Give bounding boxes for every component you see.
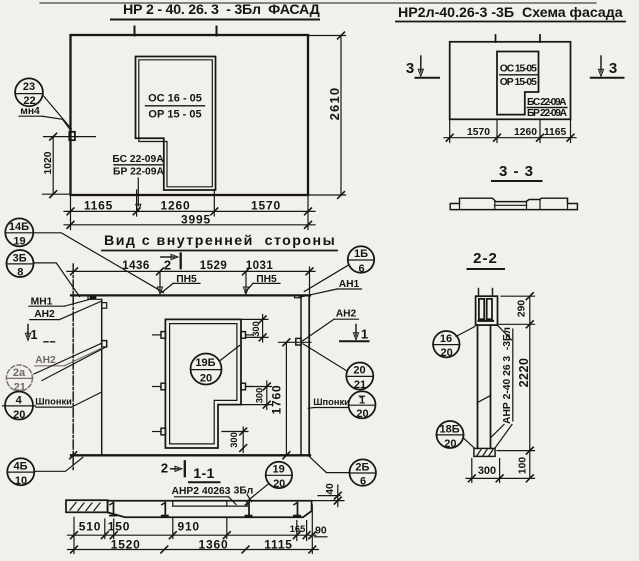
window opening of facade [136,57,216,191]
frame key tabs right [241,332,253,390]
section 2-2 heading [468,250,505,269]
svg-text:БР 22-09А: БР 22-09А [113,167,164,178]
title: inner side view heading [102,233,337,251]
section mark 2 bottom [161,461,185,477]
section 1-1 heading [189,466,220,482]
svg-text:1165: 1165 [544,127,567,138]
svg-text:150: 150 [108,520,130,534]
section mark 1 left [25,325,56,342]
svg-text:1760: 1760 [270,385,284,415]
svg-text:18Б: 18Б [440,423,460,435]
svg-text:1Б: 1Б [354,248,368,260]
svg-text:1: 1 [361,327,368,342]
anchor tab AN2 left [102,341,107,347]
anchor tab AN2 right [296,338,301,345]
label AN1 [299,279,362,297]
balloon 14B/19 [5,218,164,292]
balloon 2a/21 dashed [6,365,33,393]
balloon 4/20 with label Shponki left [3,392,102,421]
svg-text:1520: 1520 [111,538,141,552]
svg-text:Шпонки: Шпонки [313,397,350,407]
title: schema fasada heading [396,5,625,22]
svg-text:300: 300 [478,465,496,477]
frame key tabs left [153,332,166,435]
svg-text:6: 6 [360,476,366,488]
dimension 290 [499,293,535,328]
section 3-3 heading [492,163,542,181]
svg-text:300: 300 [255,388,265,404]
panel inner edge lines [88,295,301,455]
svg-text:3995: 3995 [181,213,211,227]
svg-text:20: 20 [440,347,452,359]
section 3-3 profile [450,198,577,209]
svg-text:2Б: 2Б [355,461,369,473]
svg-text:1-1: 1-1 [193,466,214,482]
svg-text:4Б: 4Б [13,461,27,473]
balloon 19/20 [247,462,293,502]
balloon 20/21 [303,344,373,391]
svg-text:1570: 1570 [467,127,490,138]
svg-text:1260: 1260 [161,199,191,213]
section 2-2 body [478,325,491,448]
svg-text:21: 21 [354,379,366,391]
section 1-1 profile outline [108,501,312,517]
svg-text:1260: 1260 [514,127,537,138]
svg-text:4: 4 [16,395,23,407]
svg-text:19: 19 [272,464,284,476]
leader pair to left anchor tab [34,343,105,380]
svg-text:БР 22-09А: БР 22-09А [527,108,568,119]
dimension 2610 vertical right [308,32,346,198]
svg-text:20: 20 [444,438,456,450]
section mark 3 right [591,56,624,78]
schema window opening [497,52,539,115]
svg-text:3: 3 [406,60,415,77]
balloon 2B/6 [309,456,376,487]
svg-text:1570: 1570 [251,199,281,213]
faint top border line [40,2,596,4]
balloon 4B/10 [7,457,83,486]
svg-text:2610: 2610 [327,87,342,121]
section mark 1 right [340,325,369,342]
label AN2 right [303,309,359,341]
dimension 300 top [242,315,268,343]
inner view panel outline [70,264,310,471]
svg-text:БС 22-09А: БС 22-09А [112,154,164,165]
balloon 3B/8 [6,250,79,297]
section 2-2 bottom foot hatched [474,448,495,456]
dimension 40 right end [312,483,344,506]
window frame inner view [165,319,241,448]
svg-text:19Б: 19Б [195,357,215,369]
svg-text:НР2л-40.26-3 -3Б Схема фасада: НР2л-40.26-3 -3Б Схема фасада [398,5,623,21]
section mark 3 left [406,56,439,78]
svg-text:1: 1 [359,394,365,406]
anchor plate mn4 on left edge [69,132,75,140]
svg-text:1115: 1115 [264,538,293,552]
svg-text:20: 20 [353,365,365,377]
svg-text:14Б: 14Б [9,221,29,233]
svg-text:20: 20 [273,478,285,490]
label Shponki right with balloon 1/20 [308,391,375,420]
svg-text:2: 2 [161,461,168,476]
dimension 300 middle [242,381,272,410]
inner view top dimensions 1436 1529 1031 [67,260,315,294]
svg-text:290: 290 [517,300,528,317]
facade bottom dimensions 1165 1260 1570 and 3995 [64,190,315,230]
svg-text:2-2: 2-2 [473,250,498,267]
svg-text:20: 20 [13,409,25,421]
svg-text:1: 1 [30,327,37,342]
schema opening mark OC15-05/OP15-05 [500,64,537,89]
schema mark BC22-09A/BP22-09A [527,97,568,119]
svg-text:Шпонки: Шпонки [35,396,72,406]
anchor plate MN1 on top edge [90,296,97,299]
balloon 19B/20 in opening [191,346,240,385]
svg-text:АНР2 40263: АНР2 40263 [172,486,231,497]
balloon 18B/20 [436,421,475,450]
svg-text:165: 165 [290,524,306,534]
balloon 1B/6 [304,246,374,291]
svg-text:АН2: АН2 [34,309,55,320]
svg-text:16: 16 [440,333,452,345]
section 2-2 top detail with studs [476,289,498,326]
title: facade view heading [111,2,320,20]
label PN5 first [162,274,200,293]
svg-text:ОР 15-05: ОР 15-05 [500,77,537,88]
svg-text:ОР 15 - 05: ОР 15 - 05 [148,109,201,121]
svg-text:3Бл: 3Бл [234,485,254,496]
panel facade outline [71,27,309,196]
section mark 2 top [161,254,181,273]
dimension 2220 [497,324,535,454]
svg-text:НР 2 - 40. 26. 3 - 3Бл ФАСАД: НР 2 - 40. 26. 3 - 3Бл ФАСАД [123,2,320,18]
svg-text:АН2: АН2 [336,309,357,320]
dimension 1020 vertical [43,133,96,197]
svg-text:10: 10 [15,475,27,487]
svg-text:АН2: АН2 [35,355,56,366]
svg-text:23: 23 [23,81,35,93]
svg-text:90: 90 [315,526,327,537]
balloon 23/22 with label mn4 [15,78,71,130]
svg-text:ОС 15-05: ОС 15-05 [500,64,537,75]
svg-text:3Б: 3Б [13,252,27,264]
svg-text:300: 300 [229,432,239,448]
svg-text:Вид с внутренней стороны: Вид с внутренней стороны [104,233,335,249]
svg-text:1031: 1031 [246,260,274,272]
profile loop anchors [110,503,300,516]
svg-text:1165: 1165 [84,199,113,213]
svg-text:2220: 2220 [517,358,531,388]
svg-text:1360: 1360 [199,538,229,552]
balloon 16/20 [433,327,475,360]
dimension 300 bottom [222,427,248,453]
svg-text:19: 19 [13,235,25,247]
svg-text:мн4: мн4 [20,106,40,117]
svg-text:20: 20 [200,373,212,385]
section 1-1 dimensions row 1520 1360 1115 [68,538,319,553]
dimension 100 [518,451,534,482]
label MN1 [29,296,92,307]
rotated label ANR 2-40 26 3 -3Bl [491,325,513,448]
svg-text:3 - 3: 3 - 3 [499,163,534,180]
svg-text:1529: 1529 [200,260,228,272]
section 1-1 profile left anchor box hatched [66,500,108,512]
schema bottom dimensions 1570 1260 1165 [444,119,576,142]
svg-text:АНР 2-40 26 3 -3Бл: АНР 2-40 26 3 -3Бл [502,327,513,424]
svg-text:300: 300 [251,321,261,337]
label PN5 second [245,274,280,293]
svg-text:510: 510 [79,520,101,534]
svg-text:ОС 16 - 05: ОС 16 - 05 [148,93,202,105]
label AN2 left [30,301,102,320]
label ANR2 40263 3Bl [172,485,254,504]
dimension 1760 [270,339,312,459]
svg-text:2а: 2а [13,367,26,379]
svg-text:20: 20 [356,408,368,420]
svg-text:БС 22-09А: БС 22-09А [527,97,567,108]
svg-text:100: 100 [518,457,529,474]
mark BC22-09A/BP22-09A with leader [112,154,164,211]
svg-text:2: 2 [164,258,171,273]
svg-text:3: 3 [609,60,618,77]
svg-text:910: 910 [177,520,199,534]
label AN2 lower faint [35,348,103,367]
svg-text:6: 6 [358,263,364,275]
svg-text:1020: 1020 [43,151,54,174]
svg-text:40: 40 [325,483,336,495]
opening mark OC16-05/OP15-05 [146,93,205,121]
svg-text:8: 8 [17,267,23,279]
dimension 300 bottom of 2-2 [466,459,535,483]
schema panel outline [450,35,571,119]
section 1-1 dimensions row 510 150 910 165 90 [68,505,328,554]
